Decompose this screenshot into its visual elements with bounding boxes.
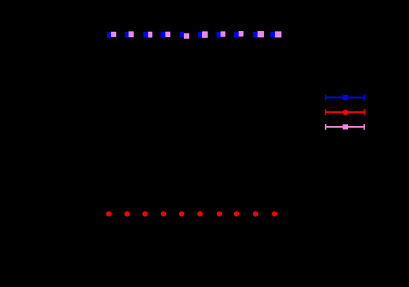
series1 blue square point 5 — [180, 32, 184, 38]
series2 red circle point 6 — [197, 211, 202, 216]
series1 blue square point 2 — [125, 32, 129, 38]
series1 blue square point 10 — [270, 32, 275, 38]
legend blue series1 errorbar line — [326, 95, 365, 101]
legend violet series3 marker — [343, 124, 348, 129]
series2 red circle point 2 — [124, 211, 129, 216]
series2 red circle point 3 — [142, 211, 147, 216]
series3 violet square point 4 — [165, 32, 170, 37]
series3 violet square point 7 — [221, 31, 226, 36]
series3 violet square point 6 — [202, 31, 208, 37]
series2 red circle point 7 — [217, 211, 222, 216]
series1 blue square point 6 — [198, 32, 202, 38]
legend red series2 errorbar line — [326, 109, 365, 115]
series3 violet square point 2 — [129, 31, 134, 37]
series2 red circle point 5 — [179, 211, 184, 216]
series3 violet square point 3 — [148, 32, 152, 38]
series2 red circle point 10 — [272, 211, 277, 216]
series1 blue square point 1 — [107, 32, 111, 38]
series2 red circle point 4 — [161, 211, 166, 216]
series3 violet square point 9 — [258, 31, 264, 37]
legend blue series1 marker — [343, 95, 348, 100]
series1 blue square point 9 — [253, 32, 258, 38]
series3 violet square point 10 — [275, 31, 281, 37]
series2 red circle point 9 — [253, 211, 258, 216]
series2 red circle point 1 — [106, 211, 111, 216]
legend violet series3 errorbar line — [326, 124, 365, 130]
legend red series2 marker — [343, 110, 348, 115]
series3 violet square point 8 — [239, 31, 244, 36]
series1 blue square point 3 — [143, 32, 148, 38]
series3 violet square point 5 — [184, 33, 189, 38]
series1 blue square point 7 — [217, 32, 221, 38]
series3 violet square point 1 — [111, 32, 116, 37]
series1 blue square point 4 — [161, 32, 166, 38]
series1 blue square point 8 — [234, 32, 239, 38]
series2 red circle point 8 — [234, 211, 239, 216]
